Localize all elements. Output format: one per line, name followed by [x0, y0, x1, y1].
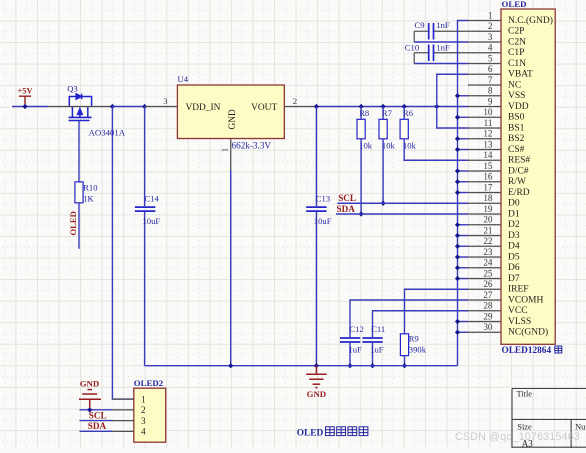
OLED pin 15 D/C# — [468, 170, 501, 172]
svg-text:10uF: 10uF — [314, 216, 332, 226]
svg-text:1uF: 1uF — [349, 344, 363, 354]
junction bus pin 15 — [455, 168, 460, 173]
svg-text:VDD: VDD — [508, 102, 529, 112]
junction bus pin 20 — [455, 222, 460, 227]
svg-text:22: 22 — [483, 236, 493, 246]
resistor R8 10k — [360, 107, 362, 120]
svg-text:30: 30 — [483, 322, 493, 332]
junction bus pin 21 — [455, 233, 460, 238]
svg-text:C1P: C1P — [508, 48, 524, 58]
svg-text:18: 18 — [483, 193, 493, 203]
wire SDA (D1 pin19) — [336, 213, 468, 215]
junction R8 tap — [359, 104, 364, 109]
svg-text:12: 12 — [483, 129, 493, 139]
OLED pin 6 VBAT — [468, 73, 501, 75]
junction C13/GND on rail — [314, 363, 319, 368]
svg-text:GND: GND — [307, 389, 327, 399]
svg-text:D0: D0 — [508, 199, 520, 209]
svg-text:BS0: BS0 — [508, 113, 525, 123]
svg-text:7: 7 — [488, 75, 493, 85]
OLED pin 22 D4 — [468, 245, 501, 247]
svg-text:R10: R10 — [83, 183, 97, 193]
svg-text:C2P: C2P — [508, 27, 524, 37]
svg-text:D1: D1 — [508, 209, 520, 219]
svg-text:R8: R8 — [359, 108, 369, 118]
capacitor C14 10uF — [144, 107, 146, 207]
title block — [512, 389, 586, 449]
svg-text:Num: Num — [575, 422, 586, 431]
svg-text:10k: 10k — [403, 140, 417, 150]
svg-text:10: 10 — [483, 107, 493, 117]
OLED2 pin 3 — [112, 420, 133, 422]
svg-text:9: 9 — [488, 96, 493, 106]
junction bus pin 12 — [455, 136, 460, 141]
OLED pin 8 VSS — [468, 95, 501, 97]
svg-text:R7: R7 — [382, 108, 393, 118]
svg-text:OLED: OLED — [68, 211, 78, 235]
svg-text:1: 1 — [220, 148, 230, 152]
junction bus pin 10 — [455, 115, 460, 120]
connector OLED (30-pin) — [501, 9, 555, 344]
wire bus stub pin 30 — [458, 331, 469, 333]
junction C13 tap — [314, 104, 319, 109]
OLED pin 27 VCOMH — [468, 299, 501, 301]
connector OLED2 (4-pin) — [134, 388, 166, 442]
junction VBAT/BS1 tap — [434, 104, 439, 109]
svg-text:3: 3 — [163, 96, 168, 106]
wire bus stub pin 29 — [458, 321, 469, 323]
resistor R7 10k — [382, 107, 384, 120]
OLED2 pin 2 — [112, 409, 133, 411]
OLED pin 3 C2N — [468, 41, 501, 43]
svg-text:GND: GND — [228, 109, 238, 130]
OLED pin 13 CS# — [468, 149, 501, 151]
power symbol +5V — [19, 96, 31, 106]
svg-text:NC(GND): NC(GND) — [508, 327, 548, 338]
wire bus stub pin 21 — [458, 235, 469, 237]
svg-text:SDA: SDA — [337, 204, 356, 214]
svg-text:SCL: SCL — [89, 410, 107, 420]
wire OLED2 pin4 SDA — [80, 430, 113, 432]
junction bus pin 13 — [455, 147, 460, 152]
junction bus pin 16 — [455, 179, 460, 184]
wire Q3 gate to R10 — [78, 121, 80, 182]
OLED2 pin 1 — [112, 398, 133, 400]
svg-text:VDD_IN: VDD_IN — [186, 103, 221, 113]
OLED pin 11 BS1 — [468, 127, 501, 129]
wire +5V feed — [12, 106, 48, 108]
svg-text:21: 21 — [483, 225, 493, 235]
wire OLED2 pin2 GND — [80, 409, 113, 411]
svg-text:AO3401A: AO3401A — [89, 128, 126, 138]
svg-text:10k: 10k — [382, 140, 396, 150]
svg-text:1nF: 1nF — [436, 20, 450, 30]
svg-text:4: 4 — [488, 43, 493, 53]
junction bus pin 23 — [455, 254, 460, 259]
svg-text:4: 4 — [141, 428, 146, 438]
wire C11 to ground rail — [372, 343, 374, 366]
wire IREF pin26 to R9 — [405, 289, 469, 334]
svg-text:CSDN @qq_1076315463: CSDN @qq_1076315463 — [455, 431, 580, 443]
op-amp U4 (662k-3.3V regulator) — [177, 85, 284, 139]
svg-text:D6: D6 — [508, 263, 520, 273]
svg-text:23: 23 — [483, 247, 493, 257]
svg-text:17: 17 — [483, 182, 493, 192]
svg-text:Size: Size — [517, 422, 532, 431]
svg-text:11: 11 — [484, 118, 493, 128]
svg-text:BS1: BS1 — [508, 123, 525, 133]
junction bus pin 25 — [455, 276, 460, 281]
wire R9 to ground rail — [404, 356, 406, 366]
svg-text:SDA: SDA — [88, 421, 107, 431]
capacitor C9 1nF — [434, 30, 469, 32]
wire R7 to SCL — [382, 139, 384, 203]
svg-text:8: 8 — [488, 86, 493, 96]
OLED pin 16 R/W — [468, 181, 501, 183]
OLED pin 17 E/RD — [468, 192, 501, 194]
wire bus stub pin 25 — [458, 278, 469, 280]
svg-text:C13: C13 — [316, 194, 330, 204]
OLED pin 10 BS0 — [468, 116, 501, 118]
capacitor C12 1uF — [350, 300, 468, 337]
junction R6 tap — [402, 104, 407, 109]
wire bus stub pin 17 — [458, 192, 469, 194]
svg-text:28: 28 — [483, 301, 493, 311]
resistor R6 10k — [403, 107, 405, 120]
OLED pin 25 D7 — [468, 278, 501, 280]
svg-text:BS2: BS2 — [508, 134, 525, 144]
OLED pin 20 D2 — [468, 224, 501, 226]
svg-text:C9: C9 — [415, 20, 425, 30]
U4 pin 3 VDD_IN — [145, 106, 177, 108]
wire OLED2 pin3 SCL — [80, 420, 113, 422]
wire R8 to SDA — [360, 139, 362, 214]
wire Q3 to U4 — [112, 106, 146, 108]
U4 pin 2 VOUT — [284, 106, 316, 108]
svg-text:N.C.(GND): N.C.(GND) — [508, 15, 553, 26]
OLED pin 5 C1N — [468, 63, 501, 65]
svg-text:19: 19 — [483, 204, 493, 214]
svg-text:OLED2: OLED2 — [134, 378, 164, 388]
svg-text:2: 2 — [141, 406, 146, 416]
svg-text:1uF: 1uF — [370, 344, 384, 354]
svg-text:29: 29 — [483, 311, 493, 321]
wire bus stub pin 16 — [458, 181, 469, 183]
svg-text:1nF: 1nF — [436, 42, 450, 52]
OLED pin 7 NC — [468, 84, 501, 86]
OLED pin 18 D0 — [468, 202, 501, 204]
svg-text:D7: D7 — [508, 274, 520, 284]
junction bus pin 17 — [455, 190, 460, 195]
svg-text:IREF: IREF — [508, 285, 529, 295]
svg-text:25: 25 — [483, 268, 493, 278]
svg-text:24: 24 — [483, 258, 493, 268]
wire U4 GND to ground rail — [230, 170, 232, 366]
OLED pin 9 VDD — [468, 106, 501, 108]
junction U4 GND on rail — [228, 363, 233, 368]
svg-text:D5: D5 — [508, 252, 520, 262]
wire SCL (D0 pin18) — [338, 202, 469, 204]
OLED pin 21 D3 — [468, 235, 501, 237]
svg-text:SCL: SCL — [338, 193, 356, 203]
svg-text:VBAT: VBAT — [508, 70, 533, 80]
svg-text:R/W: R/W — [508, 177, 526, 187]
svg-text:U4: U4 — [178, 74, 189, 84]
wire bus stub pin 10 — [458, 116, 469, 118]
svg-text:D3: D3 — [508, 231, 520, 241]
svg-text:6: 6 — [488, 64, 493, 74]
junction after Q3 — [110, 104, 115, 109]
wire bus stub pin 12 — [458, 138, 469, 140]
svg-text:C12: C12 — [350, 324, 364, 334]
svg-text:15: 15 — [483, 161, 493, 171]
svg-text:R6: R6 — [403, 108, 414, 118]
svg-text:1: 1 — [488, 10, 493, 20]
wire C13 to ground rail — [315, 212, 317, 366]
svg-text:VCC: VCC — [508, 306, 528, 316]
svg-text:1K: 1K — [83, 193, 94, 203]
transistor Q3 AO3401A (P-MOSFET) — [69, 94, 92, 121]
OLED pin 14 RES# — [468, 159, 501, 161]
svg-text:GND: GND — [80, 379, 100, 389]
wire ground bus (vertical) — [458, 21, 469, 366]
wire VBAT pin6 to rail to BS1 pin11 — [437, 74, 468, 128]
svg-text:2: 2 — [488, 21, 493, 31]
OLED pin 2 C2P — [468, 30, 501, 32]
svg-text:20: 20 — [483, 215, 493, 225]
svg-text:+5V: +5V — [17, 86, 32, 95]
svg-text:Q3: Q3 — [67, 84, 78, 94]
svg-text:RES#: RES# — [508, 156, 530, 166]
wire bus stub pin 22 — [458, 245, 469, 247]
svg-text:VOUT: VOUT — [251, 103, 277, 113]
svg-text:CS#: CS# — [508, 145, 525, 155]
junction bus pin 22 — [455, 244, 460, 249]
svg-text:D/C#: D/C# — [508, 166, 529, 176]
ground symbol GND (OLED2, inverted) — [79, 390, 101, 410]
resistor R10 1K — [75, 182, 83, 203]
OLED pin 28 VCC — [468, 310, 501, 312]
OLED pin 12 BS2 — [468, 138, 501, 140]
wire +5V to OLED2 pin 1 — [112, 107, 133, 400]
svg-text:C14: C14 — [145, 194, 160, 204]
junction bus pin 29 — [455, 319, 460, 324]
junction at +5V tap — [22, 104, 27, 109]
junction R7 tap — [381, 104, 386, 109]
U4 pin 1 GND — [230, 139, 232, 171]
wire bus stub pin 20 — [458, 224, 469, 226]
junction bus pin 30 — [455, 330, 460, 335]
wire C12 to ground rail — [349, 343, 351, 366]
OLED pin 4 C1P — [468, 52, 501, 54]
svg-text:C2N: C2N — [508, 37, 526, 47]
OLED pin 1 N.C.(GND) — [468, 20, 501, 22]
wire bus stub pin 15 — [458, 170, 469, 172]
OLED pin 26 IREF — [468, 288, 501, 290]
svg-text:13: 13 — [483, 139, 493, 149]
OLED pin 29 VLSS — [468, 321, 501, 323]
junction bus pin 8 — [455, 93, 460, 98]
svg-text:OLED: OLED — [502, 0, 527, 9]
capacitor C13 10uF — [315, 107, 317, 207]
svg-text:5: 5 — [488, 53, 493, 63]
svg-text:D2: D2 — [508, 220, 520, 230]
svg-text:C10: C10 — [405, 42, 419, 52]
svg-text:OLED: OLED — [297, 429, 324, 439]
junction bus pin 24 — [455, 265, 460, 270]
svg-text:NC: NC — [508, 80, 521, 90]
svg-text:14: 14 — [483, 150, 493, 160]
svg-text:Title: Title — [517, 389, 533, 398]
resistor R9 390k — [400, 334, 408, 356]
svg-text:OLED12864: OLED12864 — [502, 346, 552, 356]
svg-text:VLSS: VLSS — [508, 317, 531, 327]
svg-text:3: 3 — [488, 32, 493, 42]
svg-text:16: 16 — [483, 172, 493, 182]
OLED pin 19 D1 — [468, 213, 501, 215]
wire bus stub pin 8 — [458, 95, 469, 97]
svg-text:3: 3 — [141, 417, 146, 427]
svg-text:390k: 390k — [409, 344, 427, 354]
capacitor C11 1uF — [373, 311, 469, 337]
svg-text:VCOMH: VCOMH — [508, 295, 544, 305]
svg-text:2: 2 — [293, 96, 297, 106]
svg-text:VSS: VSS — [508, 91, 525, 101]
ground symbol GND (main) — [306, 366, 326, 388]
svg-text:27: 27 — [483, 290, 493, 300]
svg-text:R9: R9 — [409, 334, 419, 344]
OLED pin 24 D6 — [468, 267, 501, 269]
OLED pin 30 NC(GND) — [468, 331, 501, 333]
wire R10 to OLED net — [78, 203, 80, 249]
svg-text:E/RD: E/RD — [508, 188, 530, 198]
wire bus stub pin 13 — [458, 149, 469, 151]
svg-text:D4: D4 — [508, 242, 520, 252]
junction GND on OLED2 pin2 — [87, 407, 92, 412]
capacitor C10 1nF — [434, 52, 469, 54]
svg-text:C1N: C1N — [508, 59, 526, 69]
svg-text:26: 26 — [483, 279, 493, 289]
OLED pin 23 D5 — [468, 256, 501, 258]
wire ground rail — [145, 365, 458, 367]
junction C14 tap — [142, 104, 147, 109]
svg-text:1: 1 — [141, 395, 146, 405]
svg-text:662k-3.3V: 662k-3.3V — [232, 141, 272, 151]
svg-text:C11: C11 — [371, 324, 385, 334]
svg-text:10uF: 10uF — [143, 216, 161, 226]
wire bus stub pin 23 — [458, 256, 469, 258]
wire bus stub pin 24 — [458, 267, 469, 269]
wire R6 to RES# pin 14 — [404, 139, 468, 160]
OLED2 pin 4 — [112, 430, 133, 432]
Q3 drain/source pin lines — [48, 106, 113, 108]
wire 3.3V rail — [316, 106, 468, 108]
wire C14 to ground rail — [144, 212, 146, 366]
